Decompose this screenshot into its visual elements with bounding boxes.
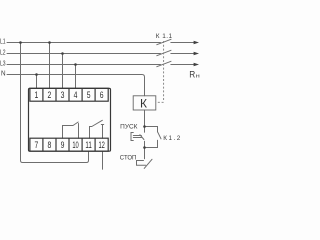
wire L2 output arrow line [171, 53, 194, 55]
terminal strip top row outline [30, 88, 108, 101]
svg-text:ПУСК: ПУСК [120, 123, 138, 130]
terminal separators bottom row [43, 138, 95, 151]
mechanical linkage dashed line [156, 41, 163, 102]
wire coil K to start node [144, 110, 146, 127]
terminal strip bottom row outline [30, 138, 108, 151]
internal relay contact terminals 9-10 [63, 122, 79, 138]
svg-text:2: 2 [48, 90, 52, 100]
svg-text:К: К [140, 97, 147, 111]
junction on N at terminal 1 drop [35, 73, 38, 76]
wire L2 drop to terminal 3 [62, 54, 64, 89]
svg-text:11: 11 [85, 140, 91, 150]
junction on L3 at terminal 4 drop [74, 63, 77, 66]
wire start node to STOP [144, 148, 146, 159]
contact K1.2 blade [158, 132, 162, 139]
junction on L1 at left wire [19, 41, 22, 44]
svg-text:К1.2: К1.2 [163, 135, 180, 142]
junction on L2 at terminal 3 drop [61, 52, 64, 55]
svg-text:К 1.1: К 1.1 [156, 33, 173, 40]
wire L1 output arrow line [171, 42, 194, 44]
wire N drop to terminal 1 [36, 75, 38, 89]
pushbutton PUSK blade [140, 135, 144, 140]
junction start node top [143, 125, 146, 128]
svg-text:6: 6 [100, 90, 104, 100]
contact K1.1 pole L2 blade [157, 50, 171, 55]
wire terminal 12 stub down [102, 151, 104, 169]
svg-text:9: 9 [61, 140, 65, 150]
relay device outline box [29, 88, 111, 151]
arrowhead L1 output [194, 41, 199, 45]
svg-text:R: R [189, 70, 195, 81]
svg-text:4: 4 [74, 90, 78, 100]
wire L1 drop to terminal 2 [49, 43, 51, 89]
svg-text:1: 1 [35, 90, 39, 100]
contact K1.1 pole L3 blade [157, 61, 171, 66]
svg-text:L1: L1 [0, 39, 6, 46]
wire L3 bus [7, 64, 161, 66]
svg-text:10: 10 [72, 140, 78, 150]
junction start node bottom [143, 146, 146, 149]
svg-text:L2: L2 [0, 50, 6, 57]
svg-text:L3: L3 [0, 61, 6, 68]
arrowhead L3 output [194, 63, 199, 67]
internal relay contact terminals 11-12 [90, 120, 104, 138]
pushbutton PUSK actuator [131, 133, 141, 141]
wire main line PUSK gap [144, 127, 146, 148]
arrowhead L2 output [194, 52, 199, 56]
wire L2 bus [7, 53, 161, 55]
wire L3 output arrow line [171, 64, 194, 66]
svg-text:5: 5 [87, 90, 91, 100]
wire from L1 down left side to terminal 11 [21, 43, 89, 163]
terminal separators top row [43, 88, 95, 101]
svg-text:12: 12 [98, 140, 104, 150]
svg-text:3: 3 [61, 90, 65, 100]
contact K1.2 branch wires [145, 127, 158, 148]
wire L1 bus [7, 42, 161, 44]
wire L3 drop to terminal 4 [75, 65, 77, 89]
svg-text:8: 8 [48, 140, 52, 150]
svg-text:N: N [1, 71, 6, 78]
svg-text:СТОП: СТОП [120, 155, 137, 162]
wire N bus to coil K [7, 75, 145, 96]
pushbutton STOP blade [144, 159, 152, 168]
junction on L1 at terminal 2 drop [48, 41, 51, 44]
pushbutton STOP actuator [137, 161, 146, 166]
contact K1.1 pole L1 blade [157, 39, 171, 44]
svg-text:н: н [196, 74, 200, 80]
coil K box [133, 96, 156, 110]
svg-text:7: 7 [35, 140, 39, 150]
